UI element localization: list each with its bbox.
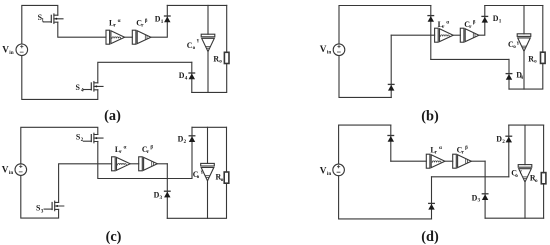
svg-text:γ: γ xyxy=(518,169,522,175)
diode D2 (c) xyxy=(178,134,195,145)
wire right edge upper (c) xyxy=(226,127,228,172)
svg-text:o: o xyxy=(534,59,537,65)
svg-text:r: r xyxy=(114,22,117,28)
wire L_r to C_r (a) xyxy=(124,36,132,38)
wire bottom diode column (d) xyxy=(431,177,433,219)
svg-text:(c): (c) xyxy=(106,229,122,245)
voltage source V_in (d) xyxy=(320,164,345,177)
svg-text:1: 1 xyxy=(499,18,502,24)
svg-text:4: 4 xyxy=(520,75,523,81)
svg-text:(b): (b) xyxy=(421,109,439,125)
wire row left (b) xyxy=(391,34,434,36)
wire L_r to C_r (d) xyxy=(445,160,453,162)
fractional capacitor C_r (d) xyxy=(453,145,472,168)
wire top diode column (b) xyxy=(430,6,432,60)
wire C_o drop (c) xyxy=(207,127,209,163)
transistor S4 xyxy=(76,82,104,94)
svg-text:(d): (d) xyxy=(421,229,439,245)
fractional capacitor C_o (c) xyxy=(193,163,215,180)
svg-text:4: 4 xyxy=(81,87,84,93)
svg-text:o: o xyxy=(535,178,538,184)
svg-text:2: 2 xyxy=(502,139,505,145)
wire C_o bottom (c) xyxy=(207,181,209,219)
wire right edge upper (b) xyxy=(542,6,544,53)
fractional capacitor C_r (c) xyxy=(139,145,158,171)
wire D2 column (d) xyxy=(508,125,510,177)
svg-text:3: 3 xyxy=(160,195,163,201)
svg-text:(a): (a) xyxy=(104,108,121,124)
wire right edge upper (a) xyxy=(226,5,228,52)
diode D1 xyxy=(155,14,170,25)
resistor R_o (b) xyxy=(528,52,545,64)
svg-text:r: r xyxy=(442,24,445,30)
diode (unlabeled top, d) xyxy=(388,136,394,142)
wire top rail right (a) xyxy=(167,4,226,6)
svg-text:r: r xyxy=(119,149,122,155)
wire bottom rail (d) xyxy=(339,176,432,219)
transistor S2 xyxy=(76,133,103,144)
svg-text:o: o xyxy=(219,59,222,65)
wire bottom right rail (d) xyxy=(485,217,543,219)
diode D4 (b) xyxy=(506,71,523,82)
wire top rail right (c) xyxy=(192,126,227,128)
svg-text:α: α xyxy=(446,19,449,25)
wire C_r to D3 (c) xyxy=(157,163,167,165)
svg-text:3: 3 xyxy=(478,198,481,204)
wire top rail right (b) xyxy=(485,5,543,7)
diode D3 (d) xyxy=(472,193,488,203)
wire C_o column upper (d) xyxy=(524,125,526,165)
svg-text:1: 1 xyxy=(41,18,44,24)
wire D3 column (d) xyxy=(484,161,486,218)
svg-text:o: o xyxy=(197,174,200,180)
resistor R_o (a) xyxy=(213,52,229,64)
voltage source V_in (c) xyxy=(2,164,27,176)
wire C_r to D1 column (a) xyxy=(151,5,168,37)
svg-text:β: β xyxy=(465,145,468,151)
svg-text:4: 4 xyxy=(185,75,188,81)
wire C_r to D1 column (b) xyxy=(479,6,485,36)
svg-text:γ: γ xyxy=(516,40,520,46)
fractional inductor L_r (b) xyxy=(435,19,454,42)
svg-text:β: β xyxy=(473,20,476,26)
svg-text:γ: γ xyxy=(196,37,200,43)
svg-text:in: in xyxy=(327,171,331,177)
svg-text:o: o xyxy=(193,45,196,51)
wire D4 column (b) xyxy=(508,59,510,89)
wire S4 source to bottom rail to V_in (a) xyxy=(22,56,98,100)
fractional inductor L_r (a) xyxy=(106,18,125,44)
transistor S1 xyxy=(38,13,63,24)
wire C_r to D3 column (d) xyxy=(471,160,485,162)
wire S3 source to bottom rail to V_in (c) xyxy=(21,176,59,219)
svg-text:in: in xyxy=(9,50,13,56)
wire row left to S3 drain (c) xyxy=(59,164,112,203)
fractional capacitor C_r (b) xyxy=(460,20,479,43)
svg-text:o: o xyxy=(513,44,516,50)
wire V_in top to S1 drain (a) xyxy=(22,5,58,44)
wire V_in top rail (d) xyxy=(339,125,391,164)
fractional capacitor C_o (b) xyxy=(508,34,531,51)
svg-text:in: in xyxy=(327,50,331,56)
svg-text:o: o xyxy=(221,177,224,183)
wire C_o drop (b) xyxy=(523,6,525,34)
wire row (d) xyxy=(391,160,427,162)
diode D2 (d) xyxy=(496,135,511,146)
wire L_r to C_r (b) xyxy=(453,34,460,36)
wire right edge lower + bottom right rail (a) xyxy=(192,64,227,93)
svg-text:2: 2 xyxy=(184,139,187,145)
wire C_o bottom (a) xyxy=(207,52,209,93)
wire mid rail S4 drain to D4 (a) xyxy=(98,62,192,83)
svg-text:V: V xyxy=(2,165,9,175)
svg-text:2: 2 xyxy=(81,137,84,143)
svg-text:1: 1 xyxy=(161,19,164,25)
diode (unlabeled bottom, d) xyxy=(429,203,435,209)
wire bottom rail (b) xyxy=(339,56,391,98)
svg-text:α: α xyxy=(439,145,442,151)
diode (unlabeled bottom, b) xyxy=(388,84,394,90)
wire right edge lower + bottom right rail (b) xyxy=(509,64,543,90)
voltage source V_in (a) xyxy=(2,44,27,56)
fractional inductor L_r (d) xyxy=(426,145,445,168)
transistor S3 xyxy=(36,201,64,214)
wire D4 column (a) xyxy=(191,62,193,92)
svg-text:α: α xyxy=(124,144,127,150)
svg-text:r: r xyxy=(435,149,438,155)
fractional capacitor C_o (d) xyxy=(511,165,532,182)
voltage source V_in (b) xyxy=(320,44,345,56)
svg-text:3: 3 xyxy=(41,208,44,214)
wire right edge (d) xyxy=(543,125,545,218)
diode D3 (c) xyxy=(154,190,171,200)
wire mid rail (b) xyxy=(431,58,509,60)
wire V_in top to S2 drain (c) xyxy=(21,127,98,164)
wire C_o bottom (b) xyxy=(523,51,525,89)
svg-text:V: V xyxy=(2,45,9,55)
diode D4 xyxy=(179,71,195,82)
svg-text:α: α xyxy=(118,18,121,24)
wire C_o bottom (d) xyxy=(524,182,526,218)
svg-text:γ: γ xyxy=(200,169,204,175)
resistor R_o (c) xyxy=(216,172,229,183)
svg-text:S: S xyxy=(76,83,81,92)
wire L_r to C_r (c) xyxy=(130,163,138,165)
wire bottom diode column (b) xyxy=(390,35,392,97)
fractional capacitor C_r (a) xyxy=(132,18,151,44)
wire right edge lower + bottom right rail (c) xyxy=(167,183,226,218)
wire S2 source to D2 bottom (c) xyxy=(98,127,192,178)
svg-text:o: o xyxy=(515,173,518,179)
wire top diode column (d) xyxy=(390,125,392,161)
svg-text:in: in xyxy=(9,170,13,176)
svg-text:V: V xyxy=(320,166,327,176)
wire mid rail (d) xyxy=(432,176,509,178)
diode (unlabeled top, b) xyxy=(428,16,434,22)
fractional inductor L_r (c) xyxy=(112,144,131,170)
svg-text:β: β xyxy=(145,18,148,24)
diode D1 (b) xyxy=(482,14,502,24)
resistor R_o (d) xyxy=(530,173,546,184)
wire S1 source to L_r row (a) xyxy=(58,22,106,37)
wire C_o drop (a) xyxy=(207,5,209,34)
wire V_in top rail (b) xyxy=(339,6,431,44)
fractional capacitor C_o (a) xyxy=(187,34,215,51)
wire D3 column (c) xyxy=(166,164,168,219)
svg-text:V: V xyxy=(320,45,327,55)
svg-text:β: β xyxy=(150,145,153,151)
wire top rail right (d) xyxy=(509,124,544,126)
